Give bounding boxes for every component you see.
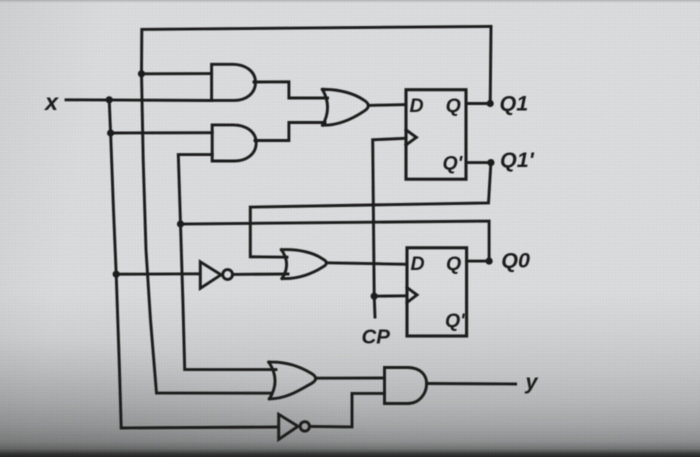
- node junction J3 on vertical A: [113, 271, 120, 278]
- flip-flop U2 box: [407, 248, 467, 336]
- wire Q1' feedback down-left to OR2 upper input: [250, 163, 491, 258]
- svg-text:Q: Q: [446, 253, 461, 275]
- svg-text:Q: Q: [446, 95, 461, 117]
- wire vertical C: AND2 lower input down to OR3 upper input: [178, 155, 276, 370]
- wire OR1 output to FF1 D input: [368, 103, 406, 107]
- or-gate OR3: [269, 362, 316, 399]
- svg-text:D: D: [411, 253, 425, 275]
- wire FF1 Q' output: [466, 161, 491, 164]
- svg-text:Q1: Q1: [500, 91, 529, 115]
- not-gate NOT2 triangle: [200, 262, 221, 289]
- wire OR2 output to FF2 D input: [327, 263, 407, 265]
- wire AND3 output to y: [427, 382, 516, 385]
- svg-text:Q1': Q1': [500, 148, 535, 172]
- svg-text:Q': Q': [445, 310, 466, 332]
- node Q0: [486, 258, 493, 265]
- wire CP junction to FF2 clock: [374, 294, 407, 297]
- wire AND1 output step down to OR1 upper input: [254, 82, 328, 98]
- wire FF1 clock input: [373, 138, 406, 317]
- svg-text:CP: CP: [362, 326, 391, 349]
- wire OR3 output to AND3 upper input: [316, 377, 385, 380]
- wire Q1 feedback: top wire, vertical B, down to OR3 lower input: [142, 26, 492, 393]
- wire Q1 node up to top wire: [489, 26, 493, 103]
- node Q1': [487, 159, 494, 166]
- node junction J4 on vertical B: [138, 70, 145, 77]
- or-gate OR1: [322, 89, 368, 125]
- not-gate NOT3 bubble: [300, 422, 309, 431]
- wire A to NOT2 input: [116, 272, 200, 275]
- node junction on vertical C: [177, 220, 184, 227]
- svg-text:D: D: [410, 95, 424, 117]
- wire B to AND1 upper input: [142, 72, 212, 75]
- svg-text:Q0: Q0: [501, 248, 530, 272]
- or-gate OR2: [281, 250, 326, 279]
- wire AND2 output step up to OR1 lower input: [255, 123, 325, 141]
- not-gate NOT2 bubble: [223, 270, 233, 280]
- node Q1: [487, 100, 494, 107]
- node CP junction: [371, 293, 378, 300]
- svg-text:x: x: [43, 89, 59, 115]
- and-gate AND3: [385, 368, 427, 404]
- and-gate AND2: [212, 125, 256, 161]
- wire FF2 Q output: [467, 260, 490, 263]
- node junction J2 on vertical A: [107, 129, 114, 136]
- not-gate NOT3 triangle: [279, 414, 298, 439]
- wire NOT2 output to OR2 lower input: [233, 273, 289, 276]
- wire x input: [66, 98, 212, 102]
- wire A to AND2 upper input: [111, 131, 213, 134]
- node junction J1 on x wire: [106, 96, 113, 103]
- wire FF1 Q output: [466, 102, 490, 105]
- svg-text:Q': Q': [443, 153, 464, 175]
- svg-text:y: y: [525, 370, 539, 394]
- flip-flop U1 box: [406, 90, 466, 180]
- wire vertical A: x line down to bottom inverter: [109, 100, 277, 428]
- and-gate AND1: [212, 64, 256, 100]
- wire NOT3 output step up to AND3 lower input: [310, 393, 385, 427]
- flip-flop U1 clock triangle: [406, 130, 416, 145]
- flip-flop U2 clock triangle: [407, 288, 417, 303]
- wire Q0 feedback up-left to vertical C: [181, 221, 490, 261]
